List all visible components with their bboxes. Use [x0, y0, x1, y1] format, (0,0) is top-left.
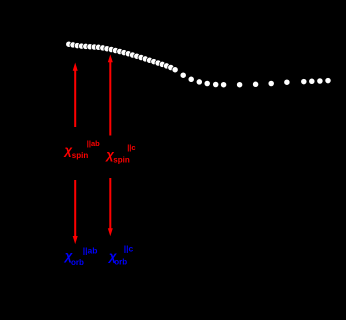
svg-text:||c: ||c: [124, 244, 134, 254]
svg-text:||c: ||c: [127, 143, 135, 152]
blue label right: [107, 244, 134, 267]
red label left: [63, 139, 101, 160]
svg-text:spin: spin: [113, 156, 130, 165]
right up arrow: [108, 55, 113, 136]
svg-text:||ab: ||ab: [83, 246, 98, 256]
data points: [66, 41, 331, 88]
svg-text:orb: orb: [71, 258, 84, 267]
right down arrow: [108, 178, 113, 236]
red label right: [104, 143, 135, 165]
svg-text:||ab: ||ab: [87, 139, 100, 148]
svg-text:orb: orb: [114, 257, 127, 266]
left up arrow: [73, 63, 78, 128]
svg-text:spin: spin: [72, 151, 89, 160]
blue label left: [63, 246, 98, 267]
left down arrow: [73, 180, 78, 244]
